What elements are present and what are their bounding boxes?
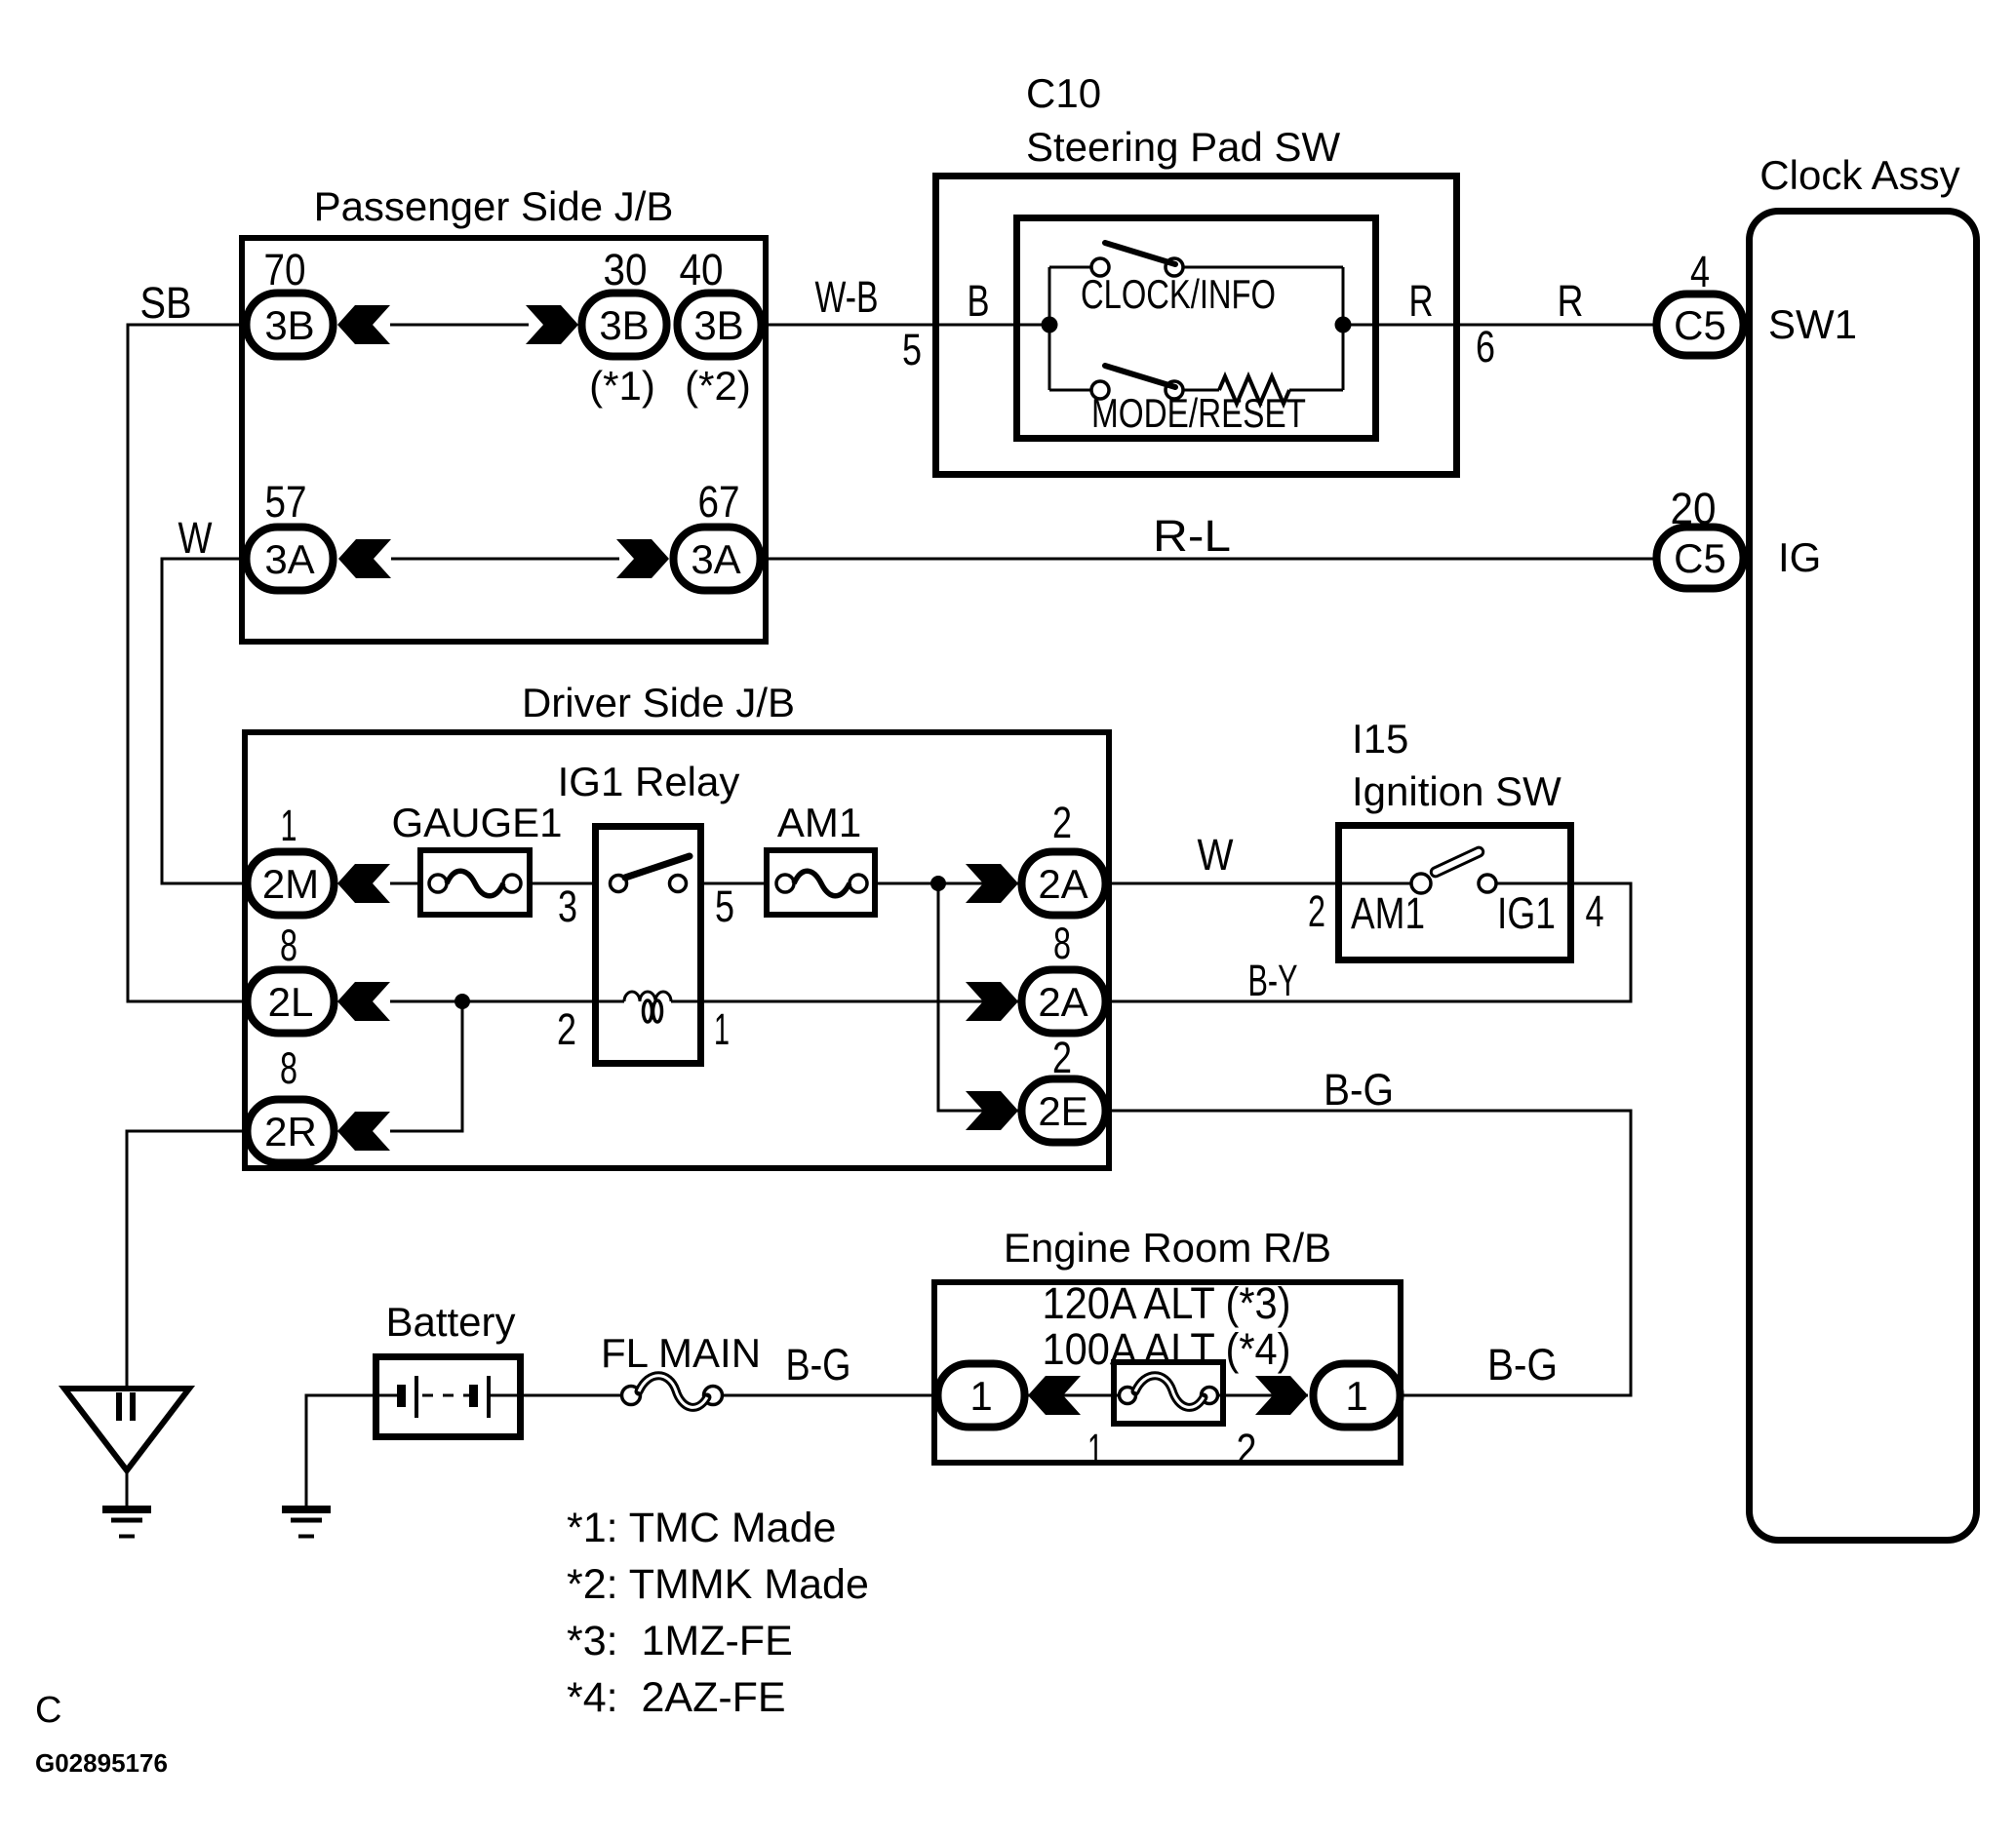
svg-text:4: 4	[1690, 247, 1710, 296]
wire B-G from 2E to Engine Room R/B	[1109, 1065, 1631, 1395]
connector 2L pin 8	[248, 970, 335, 1034]
switch CLOCK/INFO	[1081, 243, 1276, 317]
svg-text:C10: C10	[1026, 70, 1101, 116]
resistor in MODE/RESET branch	[1219, 376, 1289, 404]
ground battery ground symbol	[282, 1509, 331, 1537]
junction box Driver Side J/B	[245, 680, 1109, 1168]
svg-text:G02895176: G02895176	[35, 1748, 168, 1778]
svg-text:3B: 3B	[599, 302, 649, 348]
wire to ALT fuse	[1028, 1394, 1120, 1397]
svg-text:B-G: B-G	[1487, 1340, 1558, 1390]
svg-text:2: 2	[557, 1004, 576, 1054]
wire fuse to right connector	[1217, 1394, 1308, 1397]
wire W-B from 3B40 to Steering Pad SW	[765, 272, 1049, 374]
svg-text:*3: 1MZ-FE: *3: 1MZ-FE	[567, 1618, 793, 1664]
connector 2M pin 1	[248, 852, 335, 916]
arrow into 3B30	[526, 305, 578, 344]
wire W net 3A57 to 2M	[162, 513, 247, 883]
relay box Engine Room R/B	[934, 1225, 1401, 1463]
junction box Passenger Side J/B	[242, 183, 766, 642]
wire W to ignition switch	[1109, 830, 1338, 883]
svg-text:C5: C5	[1674, 302, 1726, 348]
ground body ground symbol left	[64, 1389, 189, 1537]
svg-text:IG: IG	[1778, 534, 1821, 580]
svg-text:4: 4	[1586, 886, 1604, 936]
svg-text:B: B	[968, 276, 990, 326]
svg-text:2M: 2M	[262, 861, 319, 907]
svg-text:1: 1	[1087, 1425, 1103, 1474]
connector 3B pin 40 (*2)	[678, 294, 762, 410]
wire 3A57 to 3A67	[391, 558, 619, 561]
wire R-L from 3A67 to clock C5 pin20	[764, 511, 1653, 561]
wire 2L to relay pin 2	[390, 1001, 595, 1054]
svg-text:*4: 2AZ-FE: *4: 2AZ-FE	[567, 1674, 786, 1721]
connector 1 right	[1314, 1364, 1401, 1428]
svg-text:6: 6	[1476, 322, 1495, 372]
svg-text:5: 5	[902, 325, 922, 374]
svg-text:3: 3	[558, 881, 577, 931]
ignition contacts AM1 / IG1	[1351, 846, 1556, 938]
svg-text:2E: 2E	[1038, 1088, 1087, 1134]
arrow into 2R	[337, 1112, 390, 1151]
wire battery left to ground	[306, 1395, 373, 1506]
svg-text:SW1: SW1	[1768, 301, 1857, 347]
svg-text:(*2): (*2)	[685, 363, 751, 409]
wire 2R to ground	[127, 1131, 244, 1389]
svg-text:SB: SB	[140, 278, 192, 328]
battery	[376, 1299, 521, 1437]
svg-text:70: 70	[264, 245, 306, 294]
svg-text:W-B: W-B	[815, 272, 879, 322]
svg-text:67: 67	[698, 477, 740, 527]
relay coil	[595, 992, 730, 1054]
svg-text:1: 1	[969, 1373, 992, 1419]
svg-text:3B: 3B	[693, 302, 743, 348]
svg-text:1: 1	[281, 801, 297, 850]
svg-text:W: W	[1198, 830, 1234, 880]
connector 2E pin 2	[1022, 1079, 1106, 1143]
connector 3A pin 67	[674, 528, 761, 591]
switch MODE/RESET	[1091, 366, 1306, 436]
svg-text:Passenger Side J/B: Passenger Side J/B	[314, 183, 674, 229]
svg-text:2: 2	[1308, 886, 1325, 936]
svg-text:*1: TMC Made: *1: TMC Made	[567, 1505, 836, 1551]
svg-text:Driver Side J/B: Driver Side J/B	[522, 680, 795, 725]
connector C5 SW1	[1657, 294, 1858, 356]
svg-text:3A: 3A	[691, 536, 740, 582]
svg-text:Steering Pad SW: Steering Pad SW	[1026, 124, 1341, 170]
wire relay pin 1 to 2A pin 8	[701, 1000, 1018, 1003]
svg-text:1: 1	[714, 1004, 730, 1054]
svg-text:2A: 2A	[1038, 861, 1087, 907]
wire R to clock C5 pin4	[1343, 276, 1653, 372]
connector 3A pin 57	[247, 528, 334, 591]
svg-text:2L: 2L	[268, 979, 314, 1025]
svg-text:57: 57	[265, 477, 307, 527]
wire bottom branch	[1049, 389, 1343, 392]
svg-text:2: 2	[1052, 1033, 1072, 1082]
svg-text:FL MAIN: FL MAIN	[601, 1330, 761, 1376]
svg-text:2R: 2R	[264, 1109, 317, 1155]
svg-text:100A ALT (*4): 100A ALT (*4)	[1043, 1324, 1291, 1374]
svg-text:Battery: Battery	[385, 1299, 515, 1345]
node B left junction	[1042, 317, 1058, 333]
svg-text:W: W	[178, 513, 213, 563]
wire 2M to GAUGE1	[390, 882, 420, 885]
fuse GAUGE1	[391, 800, 562, 915]
arrow into 3B70	[337, 305, 390, 344]
svg-text:AM1: AM1	[1351, 888, 1425, 938]
connector 3B pin 30 (*1)	[582, 294, 667, 410]
notes	[567, 1505, 869, 1721]
svg-text:8: 8	[280, 920, 297, 970]
connector C5 IG	[1657, 528, 1822, 589]
svg-text:B-G: B-G	[786, 1340, 851, 1390]
svg-text:40: 40	[680, 245, 724, 294]
svg-text:30: 30	[604, 245, 648, 294]
switch assembly C10 Steering Pad SW	[936, 70, 1457, 475]
svg-text:Clock Assy: Clock Assy	[1759, 152, 1959, 198]
svg-text:C: C	[35, 1690, 61, 1731]
arrow into connector 1 left	[1028, 1376, 1081, 1415]
svg-text:MODE/RESET: MODE/RESET	[1091, 390, 1306, 436]
svg-text:AM1: AM1	[777, 800, 861, 845]
wire battery to FL MAIN	[524, 1394, 622, 1397]
wire 3B70 to 3B30	[390, 324, 529, 327]
wire AM1 to 2A	[875, 882, 1018, 885]
connector 2A pin 8	[1022, 970, 1106, 1034]
wire drop junction to 2R	[390, 1001, 462, 1131]
svg-text:120A ALT (*3): 120A ALT (*3)	[1043, 1278, 1291, 1328]
junction node W net	[930, 876, 946, 891]
arrow into 2A pin 8	[966, 982, 1018, 1021]
wire inside ignition to AM1 contact	[1338, 882, 1411, 885]
connector 2A pin 2	[1022, 852, 1106, 916]
wire drop W junction to 2E	[938, 883, 1018, 1111]
wire B-Y loop from 2A8 to ignition IG1	[1109, 883, 1631, 1005]
arrow into 3A67	[616, 539, 669, 578]
svg-text:GAUGE1: GAUGE1	[391, 800, 562, 845]
svg-text:CLOCK/INFO: CLOCK/INFO	[1081, 271, 1276, 317]
svg-text:3A: 3A	[264, 536, 314, 582]
svg-text:1: 1	[1345, 1373, 1367, 1419]
relay IG1 box	[596, 827, 701, 1064]
wire IG1 contact to box edge	[1496, 882, 1570, 885]
wire top branch	[1049, 266, 1343, 269]
svg-text:3B: 3B	[264, 302, 314, 348]
svg-text:C5: C5	[1674, 535, 1726, 581]
connector 1 left	[938, 1364, 1025, 1428]
svg-text:R-L: R-L	[1153, 511, 1231, 561]
wire left branch vertical	[1048, 267, 1051, 390]
arrow into connector 1 right	[1255, 1376, 1308, 1415]
svg-text:2A: 2A	[1038, 979, 1087, 1025]
svg-text:2: 2	[1237, 1425, 1257, 1474]
svg-text:R: R	[1558, 276, 1584, 326]
arrow into 2A	[966, 864, 1018, 903]
svg-text:5: 5	[715, 881, 734, 931]
svg-text:IG1 Relay: IG1 Relay	[558, 759, 740, 804]
svg-text:(*1): (*1)	[589, 363, 655, 409]
arrow into 2M	[337, 864, 390, 903]
svg-text:R: R	[1409, 276, 1434, 326]
wire B-G FL MAIN to Engine Room R/B	[722, 1340, 937, 1395]
battery cells	[373, 1376, 524, 1418]
svg-text:B-Y: B-Y	[1248, 956, 1298, 1005]
fusible link FL MAIN	[601, 1330, 761, 1407]
svg-text:8: 8	[280, 1043, 297, 1093]
svg-text:2: 2	[1052, 798, 1072, 847]
fusible link 120A ALT / 100A ALT	[1114, 1362, 1223, 1424]
switch I15 Ignition SW	[1339, 716, 1571, 960]
junction node 2L/2R	[455, 994, 470, 1009]
fuse AM1	[767, 800, 875, 915]
relay contact	[611, 856, 691, 892]
svg-text:8: 8	[1053, 919, 1071, 968]
svg-text:IG1: IG1	[1497, 888, 1556, 938]
svg-text:I15: I15	[1352, 716, 1408, 762]
wire GAUGE1 to relay pin 3	[530, 881, 595, 931]
wire relay pin 5 to AM1	[701, 881, 767, 931]
connector 2R pin 8	[248, 1100, 335, 1163]
svg-text:Ignition SW: Ignition SW	[1352, 768, 1561, 814]
wire SB net from 3B pin70 down to 2L	[128, 278, 247, 1001]
arrow into 2E	[966, 1091, 1018, 1130]
connector 3B pin 70	[247, 294, 334, 357]
svg-text:*2: TMMK Made: *2: TMMK Made	[567, 1561, 869, 1608]
wire right branch vertical	[1342, 267, 1345, 390]
node R right junction	[1335, 317, 1352, 333]
arrow into 2L	[337, 982, 390, 1021]
Clock Assy box	[1750, 152, 1977, 1541]
arrow into 3A57	[338, 539, 391, 578]
svg-text:Engine Room R/B: Engine Room R/B	[1004, 1225, 1331, 1271]
svg-text:B-G: B-G	[1324, 1065, 1394, 1115]
